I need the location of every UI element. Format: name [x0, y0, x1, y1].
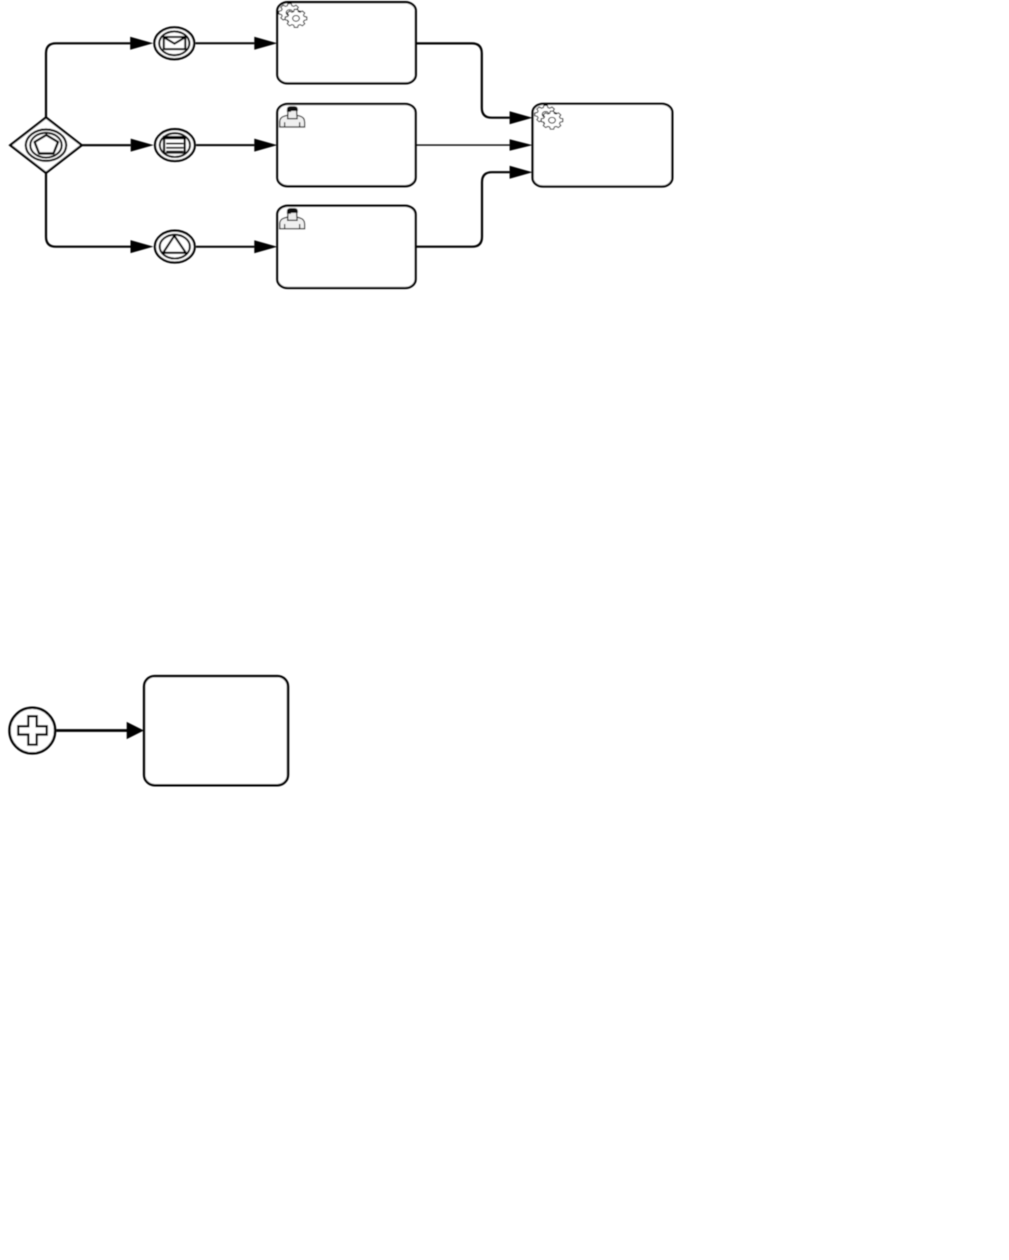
- user task 3 (bottom box): [277, 206, 415, 288]
- sequence flow: gateway to signal event: [46, 173, 131, 247]
- sequence flow: gateway to message event: [46, 43, 130, 117]
- sequence flow: user task 3 to service task 4: [416, 172, 510, 247]
- sequence flow: start event to task 5: [56, 729, 127, 732]
- sequence flow: service task 1 to service task 4: [416, 43, 510, 117]
- sequence flow: conditional event to user task 2: [196, 144, 254, 146]
- gateway pentagon: [35, 135, 58, 154]
- user task 2 person icon: [280, 106, 305, 127]
- gateway inner circle: [30, 133, 61, 158]
- conditional event icon (lined page): [163, 136, 186, 154]
- user task 3 person icon: [280, 208, 305, 229]
- signal event triangle icon: [163, 236, 186, 253]
- event-based gateway diamond: [10, 118, 81, 173]
- conditional event inner circle: [160, 133, 190, 157]
- sequence flow: gateway to conditional event: [82, 144, 131, 146]
- parallel multiple start event circle: [10, 708, 56, 754]
- sequence flow: signal event to user task 3: [196, 246, 254, 248]
- service task 4 (right box): [533, 104, 673, 187]
- message intermediate catch event: outer circle: [154, 27, 194, 59]
- service task 1 gear icon: [279, 4, 307, 28]
- start event plus icon: [18, 716, 46, 744]
- service task 4 gear icon: [535, 105, 563, 129]
- sequence flow: message event to service task 1: [196, 42, 255, 44]
- service task 1 (top box): [277, 2, 416, 83]
- gateway outer circle: [26, 130, 66, 161]
- signal event inner circle: [160, 235, 190, 259]
- signal intermediate catch event: outer circle: [155, 231, 195, 263]
- sequence flow: user task 2 to service task 4 (thin): [416, 144, 510, 146]
- message event envelope icon: [164, 37, 186, 49]
- conditional intermediate catch event: outer circle: [155, 129, 195, 161]
- user task 2 (middle box): [277, 104, 415, 186]
- task 5 (plain box, bottom-left): [144, 676, 288, 785]
- message event inner circle: [159, 31, 189, 55]
